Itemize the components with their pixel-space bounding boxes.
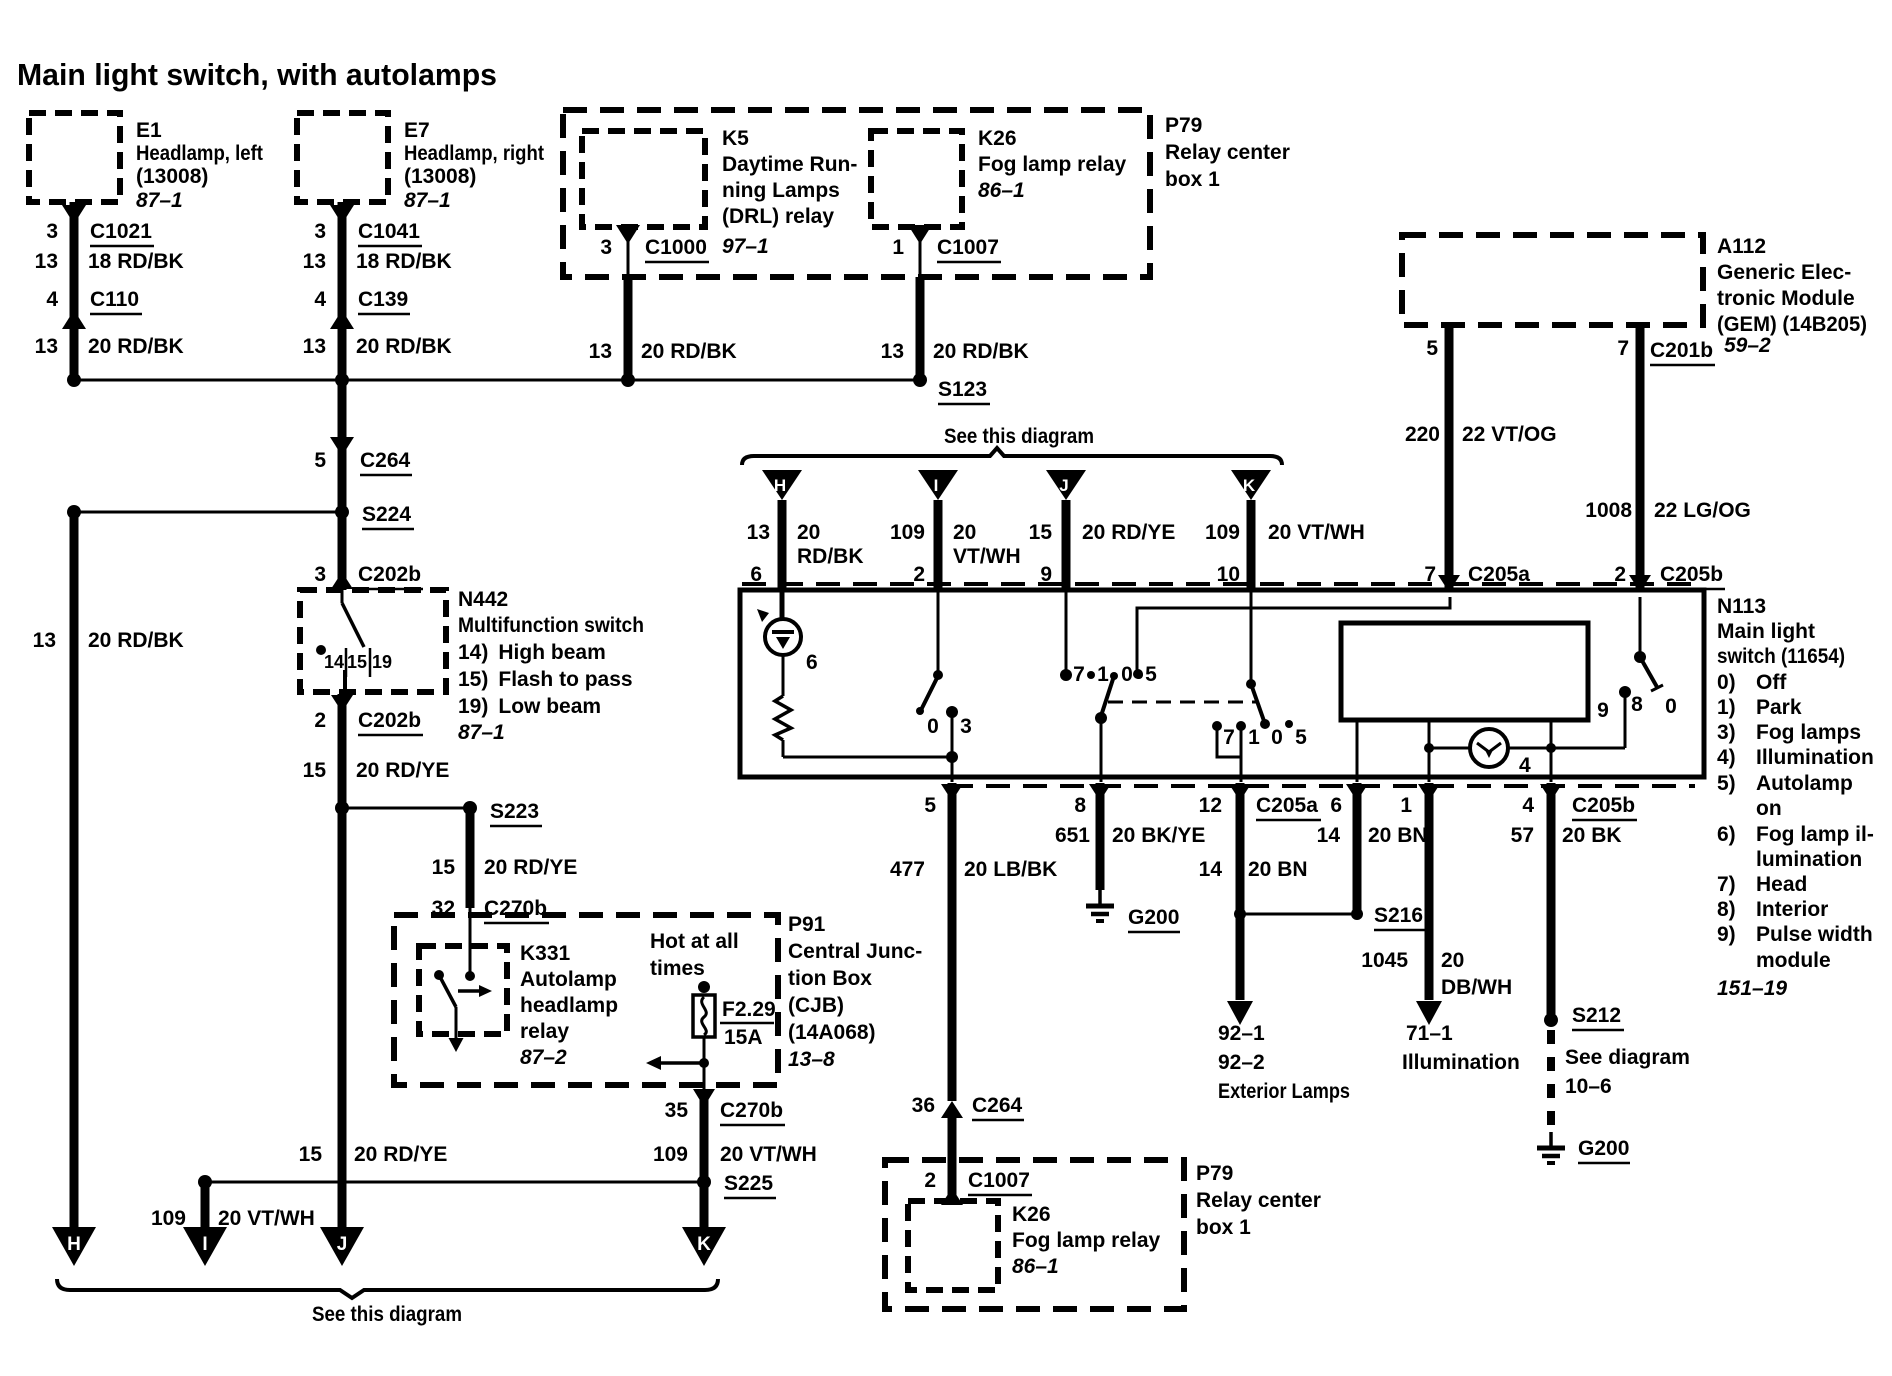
svg-text:Hot at all: Hot at all (650, 930, 739, 953)
svg-text:C205a: C205a (1256, 794, 1318, 817)
svg-text:Multifunction switch: Multifunction switch (458, 614, 644, 637)
svg-text:(DRL) relay: (DRL) relay (722, 205, 834, 228)
svg-text:20 RD/YE: 20 RD/YE (356, 759, 449, 782)
svg-text:20 LB/BK: 20 LB/BK (964, 858, 1057, 881)
svg-text:6: 6 (806, 651, 818, 674)
svg-text:Autolamp: Autolamp (520, 968, 617, 991)
svg-text:7: 7 (1073, 663, 1085, 686)
svg-text:(13008): (13008) (404, 165, 476, 188)
resistor autolamp (775, 696, 791, 740)
svg-text:20 BK: 20 BK (1562, 824, 1622, 847)
svg-text:Illumination: Illumination (1756, 746, 1874, 769)
svg-text:20 VT/WH: 20 VT/WH (1268, 521, 1365, 544)
wire 20 BK pin4 (1540, 784, 1562, 801)
svg-text:C205b: C205b (1572, 794, 1635, 817)
svg-text:15: 15 (299, 1143, 323, 1166)
relay center box P79 bottom (885, 1160, 1184, 1309)
svg-text:20 BK/YE: 20 BK/YE (1112, 824, 1205, 847)
svg-text:Relay center: Relay center (1165, 141, 1290, 164)
svg-text:Off: Off (1756, 671, 1787, 694)
svg-text:5: 5 (1426, 337, 1438, 360)
svg-text:K26: K26 (978, 127, 1017, 150)
svg-text:K331: K331 (520, 942, 571, 965)
switch arm J (1101, 676, 1114, 716)
connector line C205 top (742, 582, 1704, 586)
svg-text:(CJB): (CJB) (788, 994, 844, 1017)
svg-text:Daytime Run-: Daytime Run- (722, 153, 857, 176)
svg-text:G200: G200 (1578, 1137, 1629, 1160)
switch contact 0-3 (937, 590, 940, 674)
svg-text:5): 5) (1717, 772, 1736, 795)
connector C264 top (330, 437, 354, 456)
svg-text:C270b: C270b (720, 1099, 783, 1122)
junction E7 splice (335, 373, 349, 387)
generic electronic module A112 (1402, 235, 1703, 325)
svg-text:box 1: box 1 (1165, 168, 1220, 191)
svg-text:S216: S216 (1374, 904, 1423, 927)
svg-text:See this diagram: See this diagram (944, 425, 1094, 448)
svg-text:3: 3 (960, 715, 972, 738)
connector C1021 (62, 205, 86, 224)
svg-text:7: 7 (1617, 337, 1629, 360)
svg-text:20 RD/YE: 20 RD/YE (484, 856, 577, 879)
svg-text:15: 15 (1029, 521, 1053, 544)
svg-text:Fog lamp relay: Fog lamp relay (1012, 1229, 1161, 1252)
svg-text:18 RD/BK: 18 RD/BK (356, 250, 452, 273)
svg-text:C139: C139 (358, 288, 408, 311)
connector C270b bottom (693, 1089, 715, 1107)
connector C1041 (330, 205, 354, 224)
svg-text:DB/WH: DB/WH (1441, 976, 1512, 999)
svg-text:See this diagram: See this diagram (312, 1303, 462, 1326)
wire E1 pin 3 (70, 202, 79, 380)
svg-text:N442: N442 (458, 588, 508, 611)
svg-text:8: 8 (1074, 794, 1086, 817)
svg-text:(14A068): (14A068) (788, 1021, 876, 1044)
wire S212 to ground (1547, 1030, 1555, 1130)
svg-text:1008: 1008 (1585, 499, 1632, 522)
wire module pin4 (1550, 720, 1553, 782)
terminal I top (918, 470, 958, 500)
svg-text:3: 3 (314, 220, 326, 243)
svg-text:15: 15 (432, 856, 456, 879)
svg-text:P79: P79 (1196, 1162, 1233, 1185)
relay center box P79 (563, 110, 1150, 277)
headlamp E1 (29, 113, 120, 202)
connector C1000 (616, 225, 640, 244)
photocell sensor (757, 609, 769, 622)
junction K5 splice (621, 373, 635, 387)
svg-text:20 VT/WH: 20 VT/WH (720, 1143, 817, 1166)
wire photocell to switch (783, 756, 952, 759)
svg-text:20 RD/BK: 20 RD/BK (356, 335, 452, 358)
pulse width module box (1341, 623, 1588, 720)
svg-text:5: 5 (924, 794, 936, 817)
wire 20 LB/BK pin5 (941, 784, 963, 801)
svg-text:Central Junc-: Central Junc- (788, 940, 922, 963)
svg-text:Interior: Interior (1756, 898, 1828, 921)
svg-text:A112: A112 (1717, 235, 1766, 258)
svg-text:headlamp: headlamp (520, 994, 618, 1017)
svg-text:(13008): (13008) (136, 165, 208, 188)
svg-text:1): 1) (1717, 696, 1736, 719)
svg-text:Fog lamp relay: Fog lamp relay (978, 153, 1127, 176)
svg-text:P91: P91 (788, 913, 826, 936)
svg-text:20 RD/YE: 20 RD/YE (354, 1143, 447, 1166)
illumination lamp (1429, 747, 1625, 750)
svg-text:3: 3 (46, 220, 58, 243)
svg-text:87–2: 87–2 (520, 1046, 567, 1069)
splice S224 (74, 511, 342, 514)
splice S212 (1544, 1013, 1558, 1027)
svg-text:G200: G200 (1128, 906, 1179, 929)
svg-text:20: 20 (797, 521, 820, 544)
wire 20 BN pin12 (1229, 784, 1251, 801)
svg-text:14: 14 (1199, 858, 1223, 881)
svg-text:C1000: C1000 (645, 236, 707, 259)
wire 20 RD/YE spine (338, 694, 347, 1227)
svg-text:tronic Module: tronic Module (1717, 287, 1855, 310)
svg-text:1045: 1045 (1361, 949, 1408, 972)
svg-text:15: 15 (347, 652, 367, 672)
svg-text:K: K (697, 1234, 711, 1255)
terminal K bottom (682, 1227, 726, 1266)
svg-text:1: 1 (1248, 726, 1260, 749)
svg-text:Exterior Lamps: Exterior Lamps (1218, 1080, 1350, 1103)
svg-text:I: I (202, 1234, 207, 1255)
wire fuse down (703, 1037, 706, 1089)
svg-text:13: 13 (881, 340, 904, 363)
svg-text:box 1: box 1 (1196, 1216, 1251, 1239)
svg-text:0): 0) (1717, 671, 1736, 694)
svg-text:K5: K5 (722, 127, 749, 150)
wire C205a7 feed (1137, 597, 1450, 671)
wire 20 BN pin6 (1346, 784, 1368, 801)
terminal I bottom (183, 1227, 227, 1266)
svg-text:10–6: 10–6 (1565, 1075, 1612, 1098)
svg-text:H: H (774, 476, 786, 495)
svg-text:E1: E1 (136, 119, 162, 142)
svg-text:Fog lamps: Fog lamps (1756, 721, 1861, 744)
svg-text:13: 13 (35, 250, 58, 273)
svg-text:477: 477 (890, 858, 925, 881)
svg-text:K26: K26 (1012, 1203, 1051, 1226)
svg-text:651: 651 (1055, 824, 1090, 847)
svg-text:14) High beam: 14) High beam (458, 641, 606, 664)
connector C202b bottom (331, 695, 353, 712)
wire 20 RD/YE K331 (466, 808, 475, 908)
svg-text:12: 12 (1199, 794, 1222, 817)
svg-text:109: 109 (890, 521, 925, 544)
svg-text:lumination: lumination (1756, 848, 1862, 871)
wire module pin1 (1428, 720, 1431, 782)
svg-text:C201b: C201b (1650, 339, 1713, 362)
connector C1007 bottom (941, 1188, 963, 1205)
svg-text:Headlamp, left: Headlamp, left (136, 142, 263, 165)
exterior lamps arrow (1227, 1001, 1253, 1025)
svg-text:71–1: 71–1 (1406, 1022, 1453, 1045)
svg-text:E7: E7 (404, 119, 430, 142)
svg-text:4: 4 (1519, 754, 1531, 777)
svg-text:S225: S225 (724, 1172, 773, 1195)
svg-text:1: 1 (1097, 663, 1109, 686)
switch contact 7-1-0-5 autolamp (1065, 590, 1068, 672)
svg-text:20 RD/BK: 20 RD/BK (88, 335, 184, 358)
svg-text:S223: S223 (490, 800, 539, 823)
svg-text:57: 57 (1511, 824, 1534, 847)
svg-text:151–19: 151–19 (1717, 977, 1787, 1000)
svg-text:Main light switch, with autola: Main light switch, with autolamps (17, 57, 497, 92)
svg-text:module: module (1756, 949, 1831, 972)
mechanical link dashed (1108, 701, 1256, 704)
svg-text:5: 5 (1145, 663, 1157, 686)
wire E7 pin 3 (338, 202, 347, 380)
wire 20 BK/YE pin8 (1089, 784, 1111, 801)
terminal K top (1231, 470, 1271, 500)
svg-text:97–1: 97–1 (722, 235, 769, 258)
svg-text:Fog lamp il-: Fog lamp il- (1756, 823, 1874, 846)
ground G200 left (1098, 890, 1102, 906)
svg-text:5: 5 (314, 449, 326, 472)
svg-text:15) Flash to pass: 15) Flash to pass (458, 668, 633, 691)
svg-text:C1007: C1007 (968, 1169, 1030, 1192)
connector C264 bottom (941, 1101, 963, 1118)
svg-text:Main light: Main light (1717, 620, 1815, 643)
splice S216 (1240, 913, 1357, 916)
svg-text:S123: S123 (938, 378, 987, 401)
svg-text:13: 13 (303, 250, 326, 273)
svg-text:4: 4 (314, 288, 326, 311)
terminal H top (762, 470, 802, 500)
svg-text:0: 0 (927, 715, 939, 738)
svg-text:20 BN: 20 BN (1248, 858, 1308, 881)
svg-text:C264: C264 (972, 1094, 1023, 1117)
wire K26 pin 1 (919, 227, 922, 277)
switch arm N442 (341, 590, 344, 603)
svg-text:switch (11654): switch (11654) (1717, 645, 1845, 668)
svg-text:19) Low beam: 19) Low beam (458, 695, 601, 718)
svg-text:3: 3 (314, 563, 326, 586)
svg-text:20 RD/BK: 20 RD/BK (88, 629, 184, 652)
multifunction switch N442 (300, 590, 446, 692)
svg-text:K: K (1243, 476, 1256, 495)
relay K331 contacts (469, 946, 472, 974)
svg-text:87–1: 87–1 (404, 189, 451, 212)
svg-text:109: 109 (151, 1207, 186, 1230)
svg-text:C202b: C202b (358, 563, 421, 586)
svg-text:Autolamp: Autolamp (1756, 772, 1853, 795)
illumination arrow (1416, 1001, 1442, 1025)
wire module pin6 (1356, 720, 1359, 782)
svg-text:4): 4) (1717, 746, 1736, 769)
svg-text:20 BN: 20 BN (1368, 824, 1428, 847)
svg-text:20: 20 (953, 521, 976, 544)
wire 22 LG/OG (1636, 325, 1645, 588)
terminal J bottom (320, 1227, 364, 1266)
svg-text:VT/WH: VT/WH (953, 545, 1021, 568)
headlamp E7 (297, 113, 388, 202)
central junction box P91 (394, 915, 778, 1085)
svg-text:20 RD/YE: 20 RD/YE (1082, 521, 1175, 544)
splice S223 (335, 801, 349, 815)
fuse F2.29 15A (698, 981, 710, 993)
svg-text:4: 4 (46, 288, 58, 311)
svg-text:59–2: 59–2 (1724, 334, 1771, 357)
relay K26 (871, 131, 962, 227)
svg-text:0: 0 (1271, 726, 1283, 749)
svg-text:9: 9 (1597, 699, 1609, 722)
terminal J top (1046, 470, 1086, 500)
svg-text:35: 35 (665, 1099, 689, 1122)
svg-text:20 RD/BK: 20 RD/BK (933, 340, 1029, 363)
svg-text:36: 36 (912, 1094, 935, 1117)
svg-text:22 LG/OG: 22 LG/OG (1654, 499, 1751, 522)
svg-text:5: 5 (1295, 726, 1307, 749)
svg-text:18 RD/BK: 18 RD/BK (88, 250, 184, 273)
interior switch 8-0 (1624, 692, 1627, 748)
svg-text:C110: C110 (90, 288, 139, 311)
svg-text:13: 13 (35, 335, 58, 358)
svg-text:13–8: 13–8 (788, 1048, 835, 1071)
wire spine 20 RD/BK (338, 380, 347, 590)
svg-text:0: 0 (1665, 695, 1677, 718)
svg-text:Head: Head (1756, 873, 1807, 896)
svg-text:109: 109 (653, 1143, 688, 1166)
svg-text:3): 3) (1717, 721, 1736, 744)
svg-text:relay: relay (520, 1020, 569, 1043)
svg-text:220: 220 (1405, 423, 1440, 446)
svg-text:Pulse width: Pulse width (1756, 923, 1873, 946)
wire 22 VT/OG (1445, 325, 1454, 588)
svg-text:Headlamp, right: Headlamp, right (404, 142, 544, 165)
svg-text:13: 13 (33, 629, 56, 652)
svg-text:J: J (337, 1234, 348, 1255)
svg-text:8: 8 (1631, 693, 1643, 716)
svg-text:7): 7) (1717, 873, 1736, 896)
connector C1007 top (908, 225, 932, 244)
svg-text:20: 20 (1441, 949, 1464, 972)
svg-text:14: 14 (1317, 824, 1341, 847)
svg-text:J: J (1059, 476, 1068, 495)
svg-text:C1021: C1021 (90, 220, 152, 243)
svg-text:7: 7 (1223, 726, 1235, 749)
terminal H bottom (52, 1227, 96, 1266)
svg-text:4: 4 (1522, 794, 1534, 817)
svg-text:8): 8) (1717, 898, 1736, 921)
svg-text:ning Lamps: ning Lamps (722, 179, 840, 202)
wire K5 pin 3 (627, 227, 630, 277)
connector line C205 bottom (949, 784, 1695, 788)
svg-text:Generic Elec-: Generic Elec- (1717, 261, 1851, 284)
svg-text:2: 2 (314, 709, 326, 732)
svg-text:C1007: C1007 (937, 236, 999, 259)
svg-text:86–1: 86–1 (978, 179, 1025, 202)
svg-text:6): 6) (1717, 823, 1736, 846)
ground G200 right (1549, 1132, 1553, 1148)
svg-text:87–1: 87–1 (458, 721, 505, 744)
svg-text:RD/BK: RD/BK (797, 545, 864, 568)
switch contact K 7-1-0-5 (1250, 592, 1253, 682)
svg-text:13: 13 (303, 335, 326, 358)
svg-text:2: 2 (913, 563, 925, 586)
wire H leg 20 RD/BK (70, 512, 79, 1227)
svg-text:20 RD/BK: 20 RD/BK (641, 340, 737, 363)
svg-text:22 VT/OG: 22 VT/OG (1462, 423, 1557, 446)
svg-text:S224: S224 (362, 503, 411, 526)
svg-text:(GEM) (14B205): (GEM) (14B205) (1717, 313, 1867, 336)
main light switch N113 box (740, 590, 1704, 777)
see this diagram bottom (57, 1279, 718, 1298)
svg-text:H: H (67, 1234, 81, 1255)
svg-text:on: on (1756, 797, 1782, 820)
splice S225 (205, 1181, 704, 1184)
svg-text:92–1: 92–1 (1218, 1022, 1265, 1045)
svg-text:2: 2 (924, 1169, 936, 1192)
svg-text:C202b: C202b (358, 709, 421, 732)
svg-text:N113: N113 (1717, 595, 1766, 618)
svg-text:13: 13 (589, 340, 612, 363)
autolamp headlamp relay K331 (419, 946, 507, 1034)
splice S123 (74, 379, 920, 382)
svg-text:Illumination: Illumination (1402, 1051, 1520, 1074)
svg-text:1: 1 (1400, 794, 1412, 817)
relay K5 (582, 131, 705, 227)
svg-text:87–1: 87–1 (136, 189, 183, 212)
svg-text:See diagram: See diagram (1565, 1046, 1690, 1069)
svg-text:86–1: 86–1 (1012, 1255, 1059, 1278)
wire 20 DB/WH pin1 (1418, 784, 1440, 801)
svg-text:C264: C264 (360, 449, 411, 472)
svg-text:Relay center: Relay center (1196, 1189, 1321, 1212)
svg-text:15A: 15A (724, 1026, 763, 1049)
svg-text:3: 3 (600, 236, 612, 259)
svg-text:0: 0 (1121, 663, 1133, 686)
svg-text:9): 9) (1717, 923, 1736, 946)
junction E1 splice (67, 373, 81, 387)
svg-text:P79: P79 (1165, 114, 1202, 137)
svg-text:I: I (934, 476, 939, 495)
svg-text:14: 14 (324, 652, 344, 672)
svg-text:F2.29: F2.29 (722, 998, 776, 1021)
svg-text:20 VT/WH: 20 VT/WH (218, 1207, 315, 1230)
svg-text:times: times (650, 957, 705, 980)
svg-text:S212: S212 (1572, 1004, 1621, 1027)
relay K26 bottom (908, 1201, 998, 1290)
svg-text:15: 15 (303, 759, 327, 782)
svg-text:6: 6 (1330, 794, 1342, 817)
svg-text:tion Box: tion Box (788, 967, 872, 990)
svg-text:C1041: C1041 (358, 220, 420, 243)
svg-text:109: 109 (1205, 521, 1240, 544)
svg-text:19: 19 (372, 652, 392, 672)
svg-text:92–2: 92–2 (1218, 1051, 1265, 1074)
svg-text:13: 13 (747, 521, 770, 544)
svg-text:1: 1 (892, 236, 904, 259)
wire 20 VT/WH I leg (201, 1182, 210, 1227)
svg-text:Park: Park (1756, 696, 1802, 719)
